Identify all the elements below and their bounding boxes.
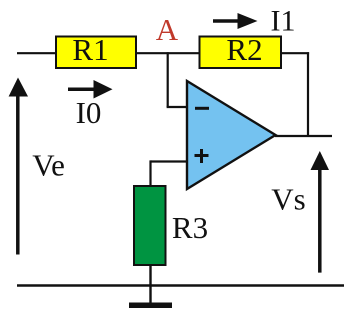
current arrow I0	[68, 80, 113, 99]
resistor R3	[134, 186, 166, 265]
wire: R2 output to feedback corner	[281, 52, 309, 54]
svg-text:R3: R3	[172, 210, 208, 245]
op-amp inverting input (-)	[195, 107, 209, 110]
resistor R2	[200, 32, 282, 68]
ground	[129, 303, 172, 309]
svg-text:I1: I1	[271, 4, 296, 37]
wire: node A vertical drop to inverting input	[167, 52, 169, 107]
wire: op-amp output to node Vs	[275, 135, 332, 137]
svg-text:I0: I0	[76, 95, 102, 130]
svg-text:Vs: Vs	[271, 182, 305, 217]
svg-text:R2: R2	[226, 32, 262, 67]
wire: R1 to R2 through node A junction	[136, 52, 200, 54]
svg-text:Ve: Ve	[32, 148, 65, 183]
voltage arrow Vs	[311, 151, 330, 273]
voltage arrow Ve	[9, 78, 28, 255]
wire: input segment left of R1	[17, 52, 57, 54]
resistor R1	[56, 32, 136, 68]
svg-text:R1: R1	[72, 32, 108, 67]
op-amp U1	[187, 81, 276, 189]
wire: non-inverting input horizontal	[151, 160, 189, 162]
wire: feedback vertical down to output node	[307, 52, 309, 136]
wire: horizontal into inverting input	[167, 106, 188, 108]
wire: R3 bottom to ground	[149, 264, 151, 303]
wire: bottom rail	[17, 284, 344, 286]
wire: vertical down to R3 top	[149, 160, 151, 187]
current arrow I1	[213, 13, 258, 29]
svg-text:A: A	[156, 12, 179, 47]
op-amp non-inverting input (+)	[195, 149, 209, 163]
